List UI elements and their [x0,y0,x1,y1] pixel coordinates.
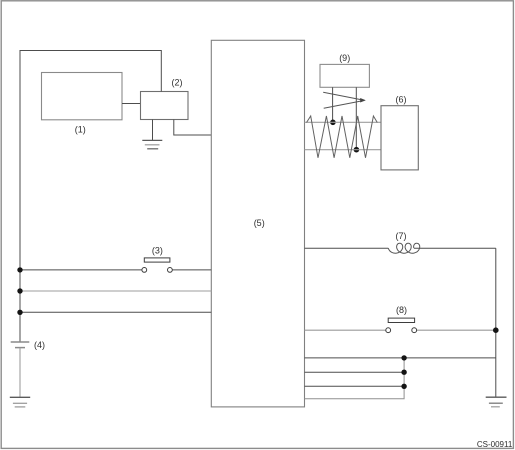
block (2) [141,77,189,119]
svg-text:CS-00911: CS-00911 [477,440,513,449]
svg-text:(9): (9) [339,53,350,63]
node: rail B junction [354,147,360,153]
wire: block2 bottom to ground [152,120,154,141]
wire: block5 to inductor 7 [305,247,389,249]
node: left bus junction 1 [17,267,22,272]
wire: block9 right pin down to secondary rail [355,87,357,149]
svg-text:(8): (8) [396,305,407,315]
wire: coil bottom rail [305,149,382,151]
ground (bottom left) [10,397,30,407]
block (6) [381,95,418,170]
svg-text:(2): (2) [172,77,183,87]
svg-text:(7): (7) [396,231,407,241]
wire: block5 sensor line 2 [305,371,405,373]
wire: block9 left pin down to primary rail [332,87,334,122]
wire: coil top rail [305,121,382,123]
spark gap arrow (distributor) [323,92,366,108]
node: right bus junction [493,327,499,333]
ground (bottom right) [486,397,507,407]
wire: block1 to block2 [122,103,141,105]
svg-text:(3): (3) [152,245,163,255]
switch (8) [305,305,496,333]
block (9) [320,53,369,87]
node: sensor tie junction 3 [401,384,406,389]
block (5) [211,40,304,407]
wire: block5 sensor line 4 with vertical tie [305,358,405,399]
wire: left bus up and over to block2 top [20,51,161,342]
wire: battery to ground [19,348,21,397]
node: sensor tie junction 1 [401,355,406,360]
node: left bus junction 3 [17,310,22,315]
node: sensor tie junction 2 [401,370,406,375]
wire: block5 to right bus (sensor line 1) [305,357,496,359]
wire: block5 sensor line 3 [305,385,405,387]
switch (3) [20,245,211,272]
node: left bus junction 2 [17,288,22,293]
wire: left bus line 3 to block5 [20,311,211,313]
node: rail A junction [330,120,336,126]
ignition coil winding [307,116,378,158]
svg-text:(5): (5) [254,218,265,228]
wire: inductor 7 to right bus [414,247,496,249]
inductor (7) [388,231,419,253]
wire: left bus line 2 to block5 [20,290,211,292]
battery (4) [11,340,45,350]
svg-text:(1): (1) [75,125,86,135]
svg-text:(4): (4) [34,340,45,350]
wire: block2 bottom to block5 [174,120,212,136]
wire: right bus vertical [495,248,497,397]
block (1) [42,73,123,135]
svg-text:(6): (6) [396,95,407,105]
ground (under block 2) [142,140,162,148]
